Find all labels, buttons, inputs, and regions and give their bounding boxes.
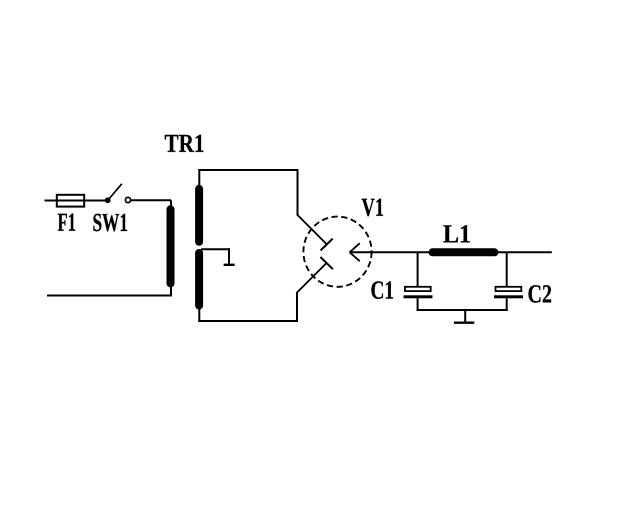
label C2 bbox=[529, 285, 552, 303]
transformer TR1 secondary winding lower half bbox=[195, 253, 203, 306]
label TR1 bbox=[165, 135, 204, 152]
wire L-in bottom bbox=[47, 286, 171, 297]
label SW1 bbox=[93, 214, 127, 232]
label V1 bbox=[362, 199, 383, 217]
label F1 bbox=[58, 214, 75, 231]
ground bbox=[454, 310, 474, 323]
wire output bbox=[350, 251, 552, 253]
switch SW1 bbox=[105, 184, 131, 203]
transformer TR1 center tap bbox=[201, 248, 235, 265]
label L1 bbox=[443, 225, 469, 242]
label C1 bbox=[371, 281, 393, 299]
tube V1 cathode arrow bbox=[350, 243, 360, 261]
fuse F1 bbox=[57, 195, 84, 207]
wire filter bottom rail bbox=[417, 309, 508, 311]
tube V1 upper anode plate bbox=[321, 239, 333, 251]
capacitor C1 bbox=[404, 287, 433, 311]
wire L-in top bbox=[45, 200, 109, 202]
tube V1 envelope bbox=[303, 217, 371, 287]
inductor L1 bbox=[433, 248, 495, 256]
transformer TR1 primary winding bbox=[167, 209, 175, 283]
wire switch to transformer bbox=[131, 200, 171, 207]
wire secondary bottom bbox=[198, 263, 327, 322]
wire secondary top bbox=[198, 169, 327, 245]
tube V1 lower anode plate bbox=[320, 257, 333, 269]
transformer TR1 secondary winding upper half bbox=[195, 189, 203, 242]
wire C2 branch bbox=[506, 252, 508, 286]
wire C1 branch bbox=[417, 252, 419, 286]
capacitor C2 bbox=[494, 287, 523, 311]
